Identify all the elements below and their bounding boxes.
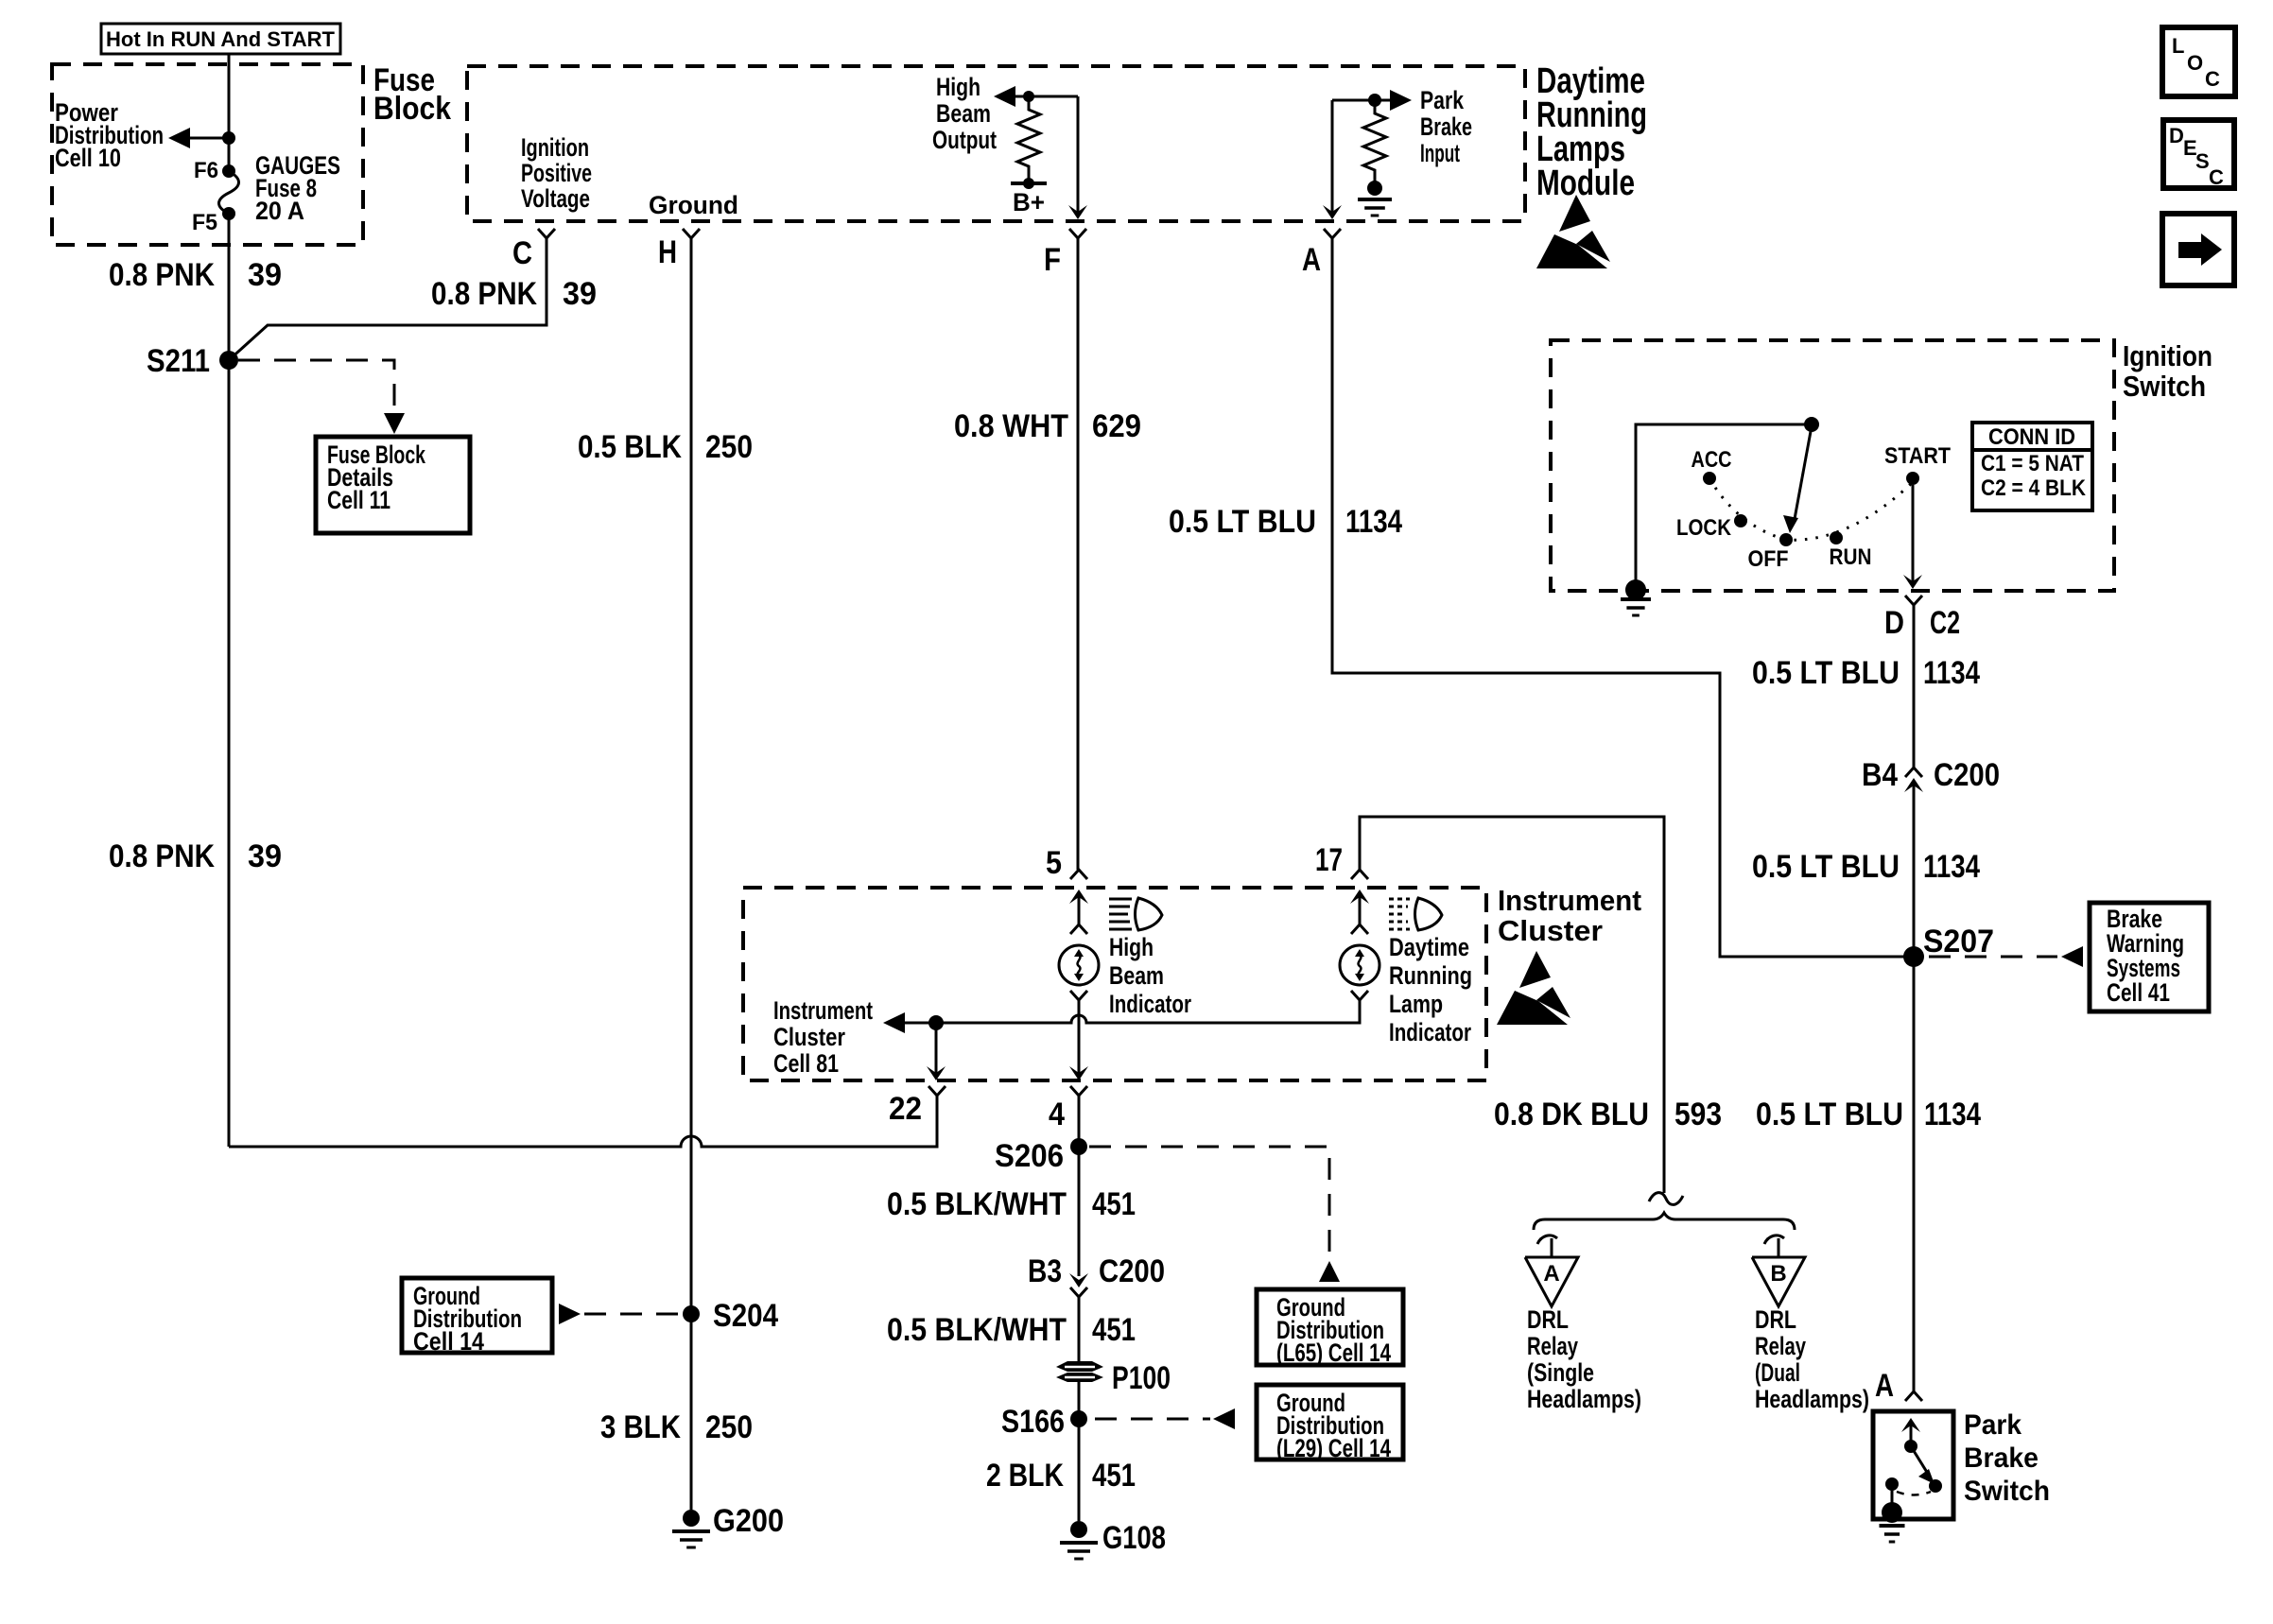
label 0.8 PNK 39 at C [431, 276, 597, 312]
label Park Brake Input [1420, 86, 1472, 167]
node S204 [683, 1305, 700, 1322]
connector female F [1069, 229, 1086, 238]
label C [512, 235, 532, 271]
label B+ [1013, 188, 1045, 216]
node power distribution tap [222, 131, 235, 145]
svg-text:(Dual: (Dual [1755, 1358, 1800, 1387]
arrow male 5 [1069, 890, 1088, 924]
arrow at terminal 4 [1069, 1066, 1088, 1080]
wire B3 to P100 [1078, 1297, 1081, 1367]
svg-text:Instrument: Instrument [1498, 884, 1641, 917]
label Ignition Switch [2123, 339, 2212, 403]
svg-text:ACC: ACC [1692, 447, 1732, 473]
dashed reference S166 [1095, 1418, 1210, 1421]
dashed detent arc [1709, 478, 1913, 540]
contact OFF [1748, 533, 1794, 572]
svg-text:OFF: OFF [1748, 546, 1789, 572]
icon high beam [1109, 898, 1162, 930]
label D C2 [1884, 605, 1960, 641]
label S207 [1923, 924, 1994, 959]
label G108 [1102, 1520, 1166, 1556]
label High Beam Indicator [1109, 933, 1191, 1018]
svg-text:0.5 LT BLU: 0.5 LT BLU [1752, 849, 1900, 885]
connector female 5 [1070, 870, 1087, 879]
ESD symbol cluster [1497, 951, 1570, 1025]
label 0.8 WHT 629 [954, 408, 1141, 444]
svg-text:1134: 1134 [1923, 849, 1980, 885]
svg-text:S166: S166 [1001, 1404, 1065, 1440]
label Instrument Cluster [1498, 884, 1641, 947]
svg-text:Headlamps): Headlamps) [1755, 1385, 1869, 1413]
park brake contact right [1929, 1479, 1942, 1493]
svg-text:C: C [2209, 165, 2224, 189]
wire bottom run to terminal 22 [229, 1096, 937, 1147]
svg-text:B+: B+ [1013, 188, 1045, 216]
svg-text:A: A [1543, 1261, 1559, 1287]
dashed travel arc [1897, 1492, 1931, 1495]
dashed reference S207 [1929, 956, 2057, 959]
label 0.5 BLK/WHT 451 lower [887, 1312, 1136, 1348]
svg-text:2 BLK: 2 BLK [986, 1458, 1064, 1494]
relay A triangle [1525, 1257, 1578, 1306]
svg-text:B: B [1770, 1261, 1786, 1287]
svg-text:0.8 PNK: 0.8 PNK [109, 838, 215, 874]
connector female H [683, 229, 700, 238]
wire F to instrument cluster [1077, 238, 1080, 870]
box Brake Warning Systems Cell 41 [2090, 903, 2209, 1011]
connector B4 C200 [1904, 768, 1923, 792]
svg-text:F6: F6 [194, 158, 218, 183]
label Power Distribution Cell 10 [55, 98, 164, 172]
box Park Brake Switch [1873, 1411, 1953, 1519]
svg-text:Ignition: Ignition [2123, 339, 2212, 372]
svg-text:Beam: Beam [1109, 961, 1164, 990]
connector female park brake A [1905, 1391, 1922, 1401]
svg-text:O: O [2187, 51, 2203, 75]
wire resistor to F lead [1029, 96, 1078, 214]
svg-text:P100: P100 [1112, 1360, 1171, 1396]
label 0.5 LT BLU 1134 seg3 [1756, 1097, 1981, 1132]
svg-text:Beam: Beam [936, 99, 991, 128]
label 0.5 BLK 250 [578, 429, 753, 465]
wire 4 to S206 [1078, 1096, 1081, 1147]
svg-text:Module: Module [1536, 164, 1635, 203]
svg-text:G108: G108 [1102, 1520, 1166, 1556]
svg-text:Input: Input [1420, 139, 1460, 167]
fuse F8 GAUGES 20A [219, 164, 239, 220]
connector female D [1905, 596, 1922, 605]
svg-text:Headlamps): Headlamps) [1527, 1385, 1641, 1413]
svg-text:Park: Park [1964, 1409, 2021, 1441]
svg-text:Cell 10: Cell 10 [55, 144, 121, 172]
label terminal 4 [1049, 1097, 1065, 1132]
connector female 17 [1351, 870, 1368, 879]
svg-text:0.8 PNK: 0.8 PNK [109, 257, 215, 293]
svg-text:4: 4 [1049, 1097, 1065, 1132]
Daytime Running Lamps Module dashed box [467, 66, 1525, 221]
splice tilde [1649, 1193, 1683, 1205]
ground park brake resistor [1358, 199, 1392, 216]
svg-text:RUN: RUN [1830, 544, 1872, 570]
connector female 22 [928, 1086, 946, 1096]
svg-text:(L65) Cell 14: (L65) Cell 14 [1276, 1339, 1391, 1367]
svg-text:CONN ID: CONN ID [1988, 424, 2075, 450]
svg-text:Cluster: Cluster [773, 1023, 845, 1051]
svg-text:Cell 81: Cell 81 [773, 1049, 839, 1078]
svg-text:F5: F5 [192, 210, 217, 235]
arrow to ground distribution L65 [1319, 1261, 1340, 1282]
svg-text:C2 = 4 BLK: C2 = 4 BLK [1981, 475, 2087, 501]
dashed reference S211 to fuse details [238, 360, 394, 416]
contact ACC [1692, 447, 1732, 485]
forward arrow box [2162, 214, 2234, 285]
hook relay A [1537, 1235, 1557, 1257]
svg-text:Brake: Brake [1420, 112, 1472, 141]
svg-text:Cell 11: Cell 11 [327, 486, 390, 514]
arrow at A inside module [1323, 205, 1342, 219]
wire F5 to S211 [228, 214, 231, 360]
svg-text:Lamp: Lamp [1389, 990, 1443, 1018]
svg-text:Voltage: Voltage [521, 184, 590, 213]
arrow from brake warning systems [2061, 946, 2083, 967]
label terminal 17 [1315, 842, 1343, 878]
svg-text:C200: C200 [1934, 757, 2000, 793]
CONN ID box [1972, 423, 2092, 510]
connector B3 C200 [1069, 1273, 1088, 1297]
svg-text:22: 22 [889, 1091, 922, 1127]
connector female lamp top [1070, 924, 1087, 934]
dashed reference to S204 [584, 1313, 683, 1316]
svg-text:Daytime: Daytime [1389, 933, 1469, 961]
wire lamp to terminal 4 [1078, 1000, 1081, 1074]
svg-text:C: C [2205, 67, 2220, 91]
box Ground Distribution Cell 14 [402, 1278, 552, 1356]
label 0.8 DK BLU 593 [1494, 1097, 1722, 1132]
svg-text:Cluster: Cluster [1498, 914, 1603, 947]
svg-text:High: High [936, 73, 980, 101]
svg-text:S: S [2195, 149, 2210, 173]
wire S206 to B3 [1078, 1147, 1081, 1276]
svg-text:1134: 1134 [1923, 655, 1980, 691]
svg-text:C: C [512, 235, 532, 271]
svg-text:Ground: Ground [649, 191, 738, 219]
arrow to power distribution [168, 128, 190, 148]
svg-text:250: 250 [705, 429, 753, 465]
svg-text:0.5 LT BLU: 0.5 LT BLU [1756, 1097, 1903, 1132]
grommet P100 [1056, 1361, 1103, 1382]
node cell81 junction [928, 1015, 944, 1030]
wire A lead inside module [1331, 100, 1334, 214]
label B4 C200 [1862, 757, 2000, 793]
svg-text:0.8 WHT: 0.8 WHT [954, 408, 1068, 444]
wire 17 up and over to DK BLU [1360, 817, 1664, 1193]
wire H ground [690, 238, 693, 1510]
arrow park brake input [1390, 90, 1412, 111]
pin F5 [192, 210, 217, 235]
label 0.5 BLK/WHT 451 upper [887, 1186, 1136, 1222]
svg-text:629: 629 [1092, 408, 1141, 444]
park brake contact left [1885, 1477, 1899, 1511]
svg-text:39: 39 [248, 257, 282, 293]
svg-text:A: A [1302, 242, 1321, 278]
arrow at terminal 22 [927, 1066, 946, 1080]
svg-text:Brake: Brake [1964, 1443, 2039, 1474]
svg-text:Ignition: Ignition [521, 133, 589, 162]
ground G200 [672, 1510, 710, 1547]
svg-text:(Single: (Single [1527, 1358, 1594, 1387]
svg-text:0.5 LT BLU: 0.5 LT BLU [1169, 504, 1316, 540]
label GAUGES Fuse 8 20 A [255, 151, 340, 225]
label terminal 5 [1046, 845, 1062, 881]
arrow at F inside module [1068, 205, 1087, 219]
ESD symbol module [1536, 195, 1610, 268]
svg-text:LOCK: LOCK [1676, 515, 1732, 541]
resistor high beam output [1017, 91, 1040, 189]
DESC box [2163, 120, 2234, 189]
label 0.5 LT BLU 1134 seg1 [1752, 655, 1980, 691]
node S207 [1903, 946, 1924, 967]
label A park brake [1875, 1368, 1894, 1404]
svg-text:DRL: DRL [1527, 1305, 1569, 1334]
wire A to S207 run [1332, 238, 1914, 957]
svg-text:D: D [2169, 124, 2184, 147]
svg-text:0.5 BLK/WHT: 0.5 BLK/WHT [887, 1186, 1067, 1222]
svg-text:Switch: Switch [2123, 370, 2206, 403]
arrow from ground distribution [559, 1304, 581, 1324]
label F [1044, 242, 1061, 278]
wire S211 to C terminal [229, 238, 547, 360]
LOC box [2162, 27, 2235, 96]
svg-text:B3: B3 [1028, 1253, 1062, 1289]
arrow from ground distribution L29 [1213, 1408, 1235, 1429]
label Daytime Running Lamps Module [1536, 61, 1647, 203]
ignition switch common wire [1636, 424, 1812, 590]
label box Hot In RUN And START [101, 24, 340, 54]
ignition selector arm [1783, 426, 1812, 533]
wire S166 to G108 [1078, 1419, 1081, 1521]
ground park brake [1880, 1526, 1905, 1542]
svg-text:START: START [1884, 443, 1951, 469]
svg-text:Indicator: Indicator [1109, 990, 1191, 1018]
svg-text:0.5 BLK/WHT: 0.5 BLK/WHT [887, 1312, 1067, 1348]
icon daytime running lamp [1389, 898, 1442, 930]
box Ground Distribution L29 Cell 14 [1257, 1385, 1403, 1462]
label Park Brake Switch [1964, 1409, 2050, 1507]
label 0.8 PNK 39 lower [109, 838, 282, 874]
svg-text:C1 = 5 NAT: C1 = 5 NAT [1981, 451, 2084, 476]
connector female C [538, 229, 555, 238]
svg-text:1134: 1134 [1345, 504, 1402, 540]
label terminal 22 [889, 1091, 922, 1127]
arrow into fuse block details [384, 413, 405, 434]
svg-text:S204: S204 [713, 1298, 778, 1334]
svg-text:Hot In RUN And START: Hot In RUN And START [106, 27, 336, 51]
svg-text:451: 451 [1092, 1312, 1136, 1348]
park brake pivot [1904, 1440, 1917, 1453]
svg-text:0.5 LT BLU: 0.5 LT BLU [1752, 655, 1900, 691]
svg-text:39: 39 [563, 276, 597, 312]
arrow at D [1903, 575, 1922, 589]
park brake common [1882, 1502, 1902, 1523]
svg-text:Switch: Switch [1964, 1476, 2050, 1507]
label 2 BLK 451 [986, 1458, 1136, 1494]
svg-text:C200: C200 [1099, 1253, 1165, 1289]
connector female drl lamp bottom [1351, 991, 1368, 1000]
label S204 [713, 1298, 778, 1334]
dashed reference S206 [1089, 1147, 1329, 1257]
svg-text:S211: S211 [147, 343, 210, 379]
svg-text:B4: B4 [1862, 757, 1898, 793]
svg-text:G200: G200 [713, 1503, 784, 1539]
svg-text:Instrument: Instrument [773, 996, 873, 1025]
wire S207 to park brake switch [1913, 957, 1916, 1391]
wire P100 to S166 [1078, 1381, 1081, 1419]
relay B triangle [1752, 1257, 1805, 1306]
connector female lamp bottom [1070, 991, 1087, 1000]
svg-text:Running: Running [1389, 961, 1472, 990]
wire hot feed into fuse block [228, 54, 231, 171]
label S166 [1001, 1404, 1065, 1440]
label 0.8 PNK 39 upper [109, 257, 282, 293]
contact START [1884, 443, 1951, 485]
node S206 [1070, 1138, 1087, 1155]
pin F6 [194, 158, 218, 183]
wire arrow to resistor top [1007, 95, 1029, 98]
label 0.5 LT BLU 1134 on A wire [1169, 504, 1402, 540]
svg-text:Block: Block [373, 91, 451, 127]
svg-text:0.5 BLK: 0.5 BLK [578, 429, 682, 465]
wire START to D [1912, 485, 1915, 583]
wire junction down to terminal 22 [935, 1023, 938, 1074]
svg-text:F: F [1044, 242, 1061, 278]
wire cell81 to DRL indicator [936, 1000, 1360, 1023]
label B3 C200 [1028, 1253, 1165, 1289]
wire S211 down left side [228, 360, 231, 1147]
label 0.5 LT BLU 1134 seg2 [1752, 849, 1980, 885]
node S211 [219, 351, 238, 370]
svg-text:0.8 PNK: 0.8 PNK [431, 276, 537, 312]
svg-text:451: 451 [1092, 1458, 1136, 1494]
svg-text:3 BLK: 3 BLK [600, 1409, 681, 1445]
resistor park brake input [1363, 94, 1386, 196]
daytime running lamp indicator [1340, 945, 1379, 985]
svg-text:DRL: DRL [1755, 1305, 1796, 1334]
label Ground in module [649, 191, 738, 219]
arrow to instrument cluster cell 81 [883, 1012, 905, 1033]
svg-text:H: H [658, 234, 677, 270]
svg-text:D: D [1884, 605, 1904, 641]
arrow male park brake [1901, 1418, 1920, 1444]
arrow high beam output [994, 86, 1015, 107]
svg-text:451: 451 [1092, 1186, 1136, 1222]
svg-text:Cell 41: Cell 41 [2107, 978, 2170, 1007]
wire D to B4 [1913, 605, 1916, 768]
svg-text:Positive: Positive [521, 159, 592, 187]
svg-text:5: 5 [1046, 845, 1062, 881]
svg-text:Cell 14: Cell 14 [413, 1327, 484, 1356]
high beam indicator lamp [1059, 945, 1099, 985]
svg-text:A: A [1875, 1368, 1894, 1404]
B+ terminal bar [1011, 181, 1047, 185]
label A terminal [1302, 242, 1321, 278]
svg-text:S206: S206 [995, 1138, 1064, 1174]
ignition switch dashed box [1551, 340, 2114, 591]
contact RUN [1830, 531, 1872, 570]
label P100 [1112, 1360, 1171, 1396]
svg-text:Relay: Relay [1755, 1332, 1806, 1360]
label S211 [147, 343, 210, 379]
label H [658, 234, 677, 270]
connector female A [1324, 229, 1341, 238]
instrument cluster dashed box [743, 888, 1486, 1080]
node ignition pivot [1804, 417, 1819, 432]
connector female 4 [1070, 1086, 1087, 1096]
label Instrument Cluster Cell 81 [773, 996, 873, 1078]
svg-text:(L29) Cell 14: (L29) Cell 14 [1276, 1434, 1391, 1462]
hook relay B [1764, 1235, 1784, 1257]
label Ignition Positive Voltage [521, 133, 592, 213]
label DRL Relay Dual Headlamps [1755, 1305, 1869, 1413]
wire to power distribution [185, 137, 229, 140]
label 3 BLK 250 [600, 1409, 753, 1445]
svg-text:593: 593 [1674, 1097, 1722, 1132]
box Ground Distribution L65 Cell 14 [1257, 1289, 1403, 1367]
park brake lever [1911, 1446, 1935, 1484]
brace to relays [1534, 1213, 1795, 1230]
svg-text:L: L [2172, 34, 2184, 58]
svg-text:Indicator: Indicator [1389, 1018, 1471, 1046]
svg-text:Park: Park [1420, 86, 1465, 114]
wire B4 to S207 [1913, 786, 1916, 957]
svg-text:0.8 DK BLU: 0.8 DK BLU [1494, 1097, 1649, 1132]
svg-text:Output: Output [932, 126, 997, 154]
label DRL Relay Single Headlamps [1527, 1305, 1641, 1413]
wire resistor park brake [1332, 99, 1398, 102]
label S206 [995, 1138, 1064, 1174]
label G200 [713, 1503, 784, 1539]
node S166 [1070, 1410, 1087, 1427]
wire cell81 horizontal [896, 1022, 936, 1025]
svg-text:20 A: 20 A [255, 197, 304, 225]
svg-text:High: High [1109, 933, 1154, 961]
arrow male 17 [1350, 890, 1369, 924]
svg-text:39: 39 [248, 838, 282, 874]
svg-text:17: 17 [1315, 842, 1343, 878]
svg-text:250: 250 [705, 1409, 753, 1445]
label Daytime Running Lamp Indicator [1389, 933, 1472, 1046]
svg-text:1134: 1134 [1924, 1097, 1981, 1132]
ignition ground [1621, 579, 1651, 615]
svg-text:C2: C2 [1930, 605, 1960, 641]
box Fuse Block Details Cell 11 [316, 437, 470, 533]
svg-text:Relay: Relay [1527, 1332, 1578, 1360]
label High Beam Output [932, 73, 997, 154]
fuse block title [373, 62, 451, 127]
connector female drl lamp top [1351, 924, 1368, 934]
contact LOCK [1676, 514, 1747, 541]
ground G108 [1060, 1521, 1098, 1559]
fuse block dashed box [52, 64, 363, 245]
svg-text:S207: S207 [1923, 924, 1994, 959]
